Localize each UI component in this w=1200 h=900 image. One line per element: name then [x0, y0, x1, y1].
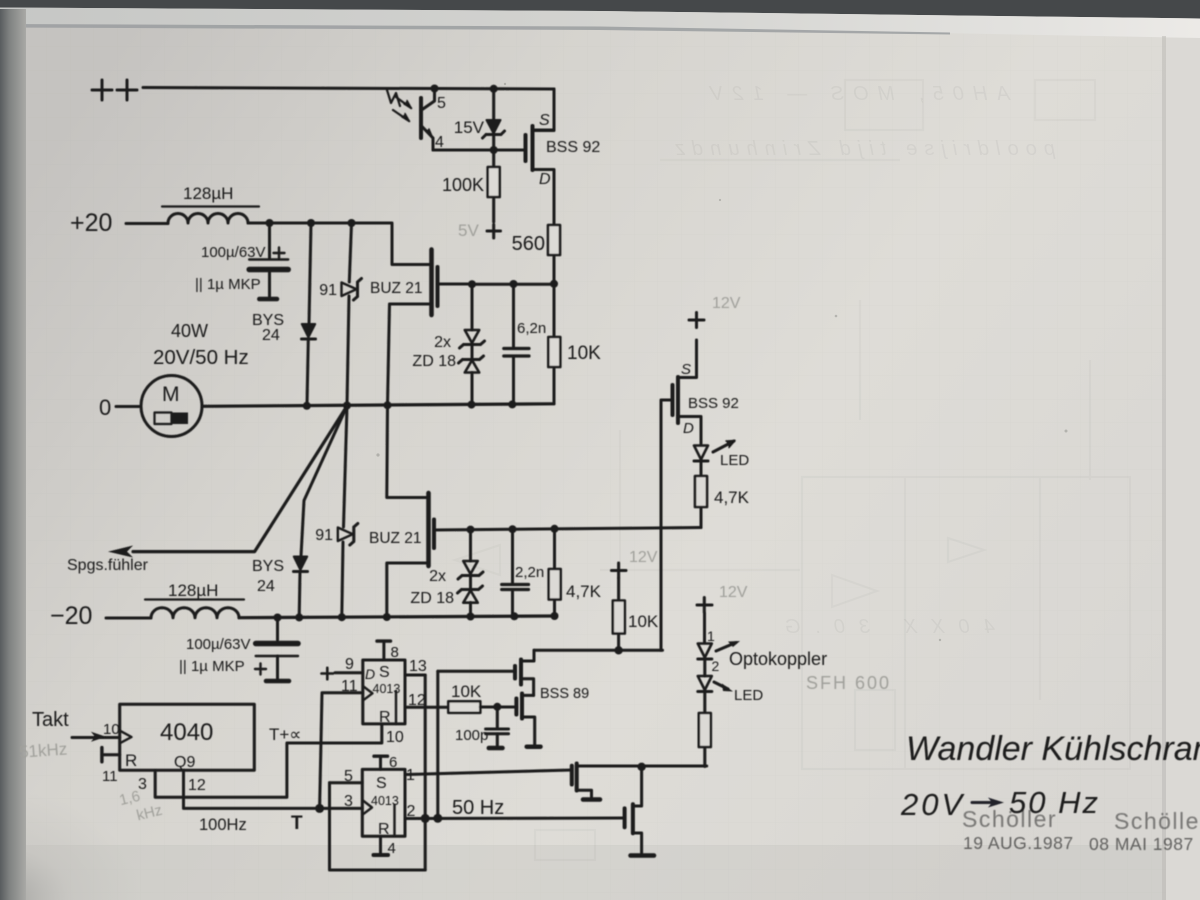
resistor (optokoppler, unlabeled) [699, 713, 711, 767]
ground terminal BSS89 source [527, 744, 541, 749]
stamp dates [963, 833, 1194, 854]
wire 12V to BSS92 source [678, 340, 697, 378]
power +12V terminal (BSS92 mid) [689, 313, 704, 328]
transistor BSS92 Q2 (top) [526, 126, 555, 225]
capacitor 100u/63V (top) [249, 223, 288, 299]
wire phototransistor emitter to BSS92 gate [433, 149, 526, 152]
motor M [116, 376, 202, 437]
capacitor 100u/63V (bottom) [256, 618, 298, 682]
diode zener 15V [483, 89, 505, 150]
svg-text:BUZ 21: BUZ 21 [370, 280, 423, 297]
inductor 128uH (bottom) [151, 608, 239, 618]
svg-text:R: R [379, 709, 391, 726]
svg-text:5V: 5V [458, 221, 479, 240]
svg-text:12V: 12V [719, 584, 748, 601]
label 128uH (bottom) [168, 581, 218, 600]
svg-text:4: 4 [435, 134, 444, 151]
svg-text:128µH: 128µH [168, 581, 218, 600]
svg-text:12V: 12V [712, 295, 741, 312]
wire 10K to BSS89 lower gate [480, 706, 516, 709]
label 1,6 kHz (pencil) [118, 783, 164, 827]
resistor 10K (gate, horizontal) [448, 701, 480, 713]
wire ++ rail [143, 88, 554, 90]
stamp Schoeller Schoeller [962, 806, 1200, 834]
svg-text:BUZ 21: BUZ 21 [369, 530, 422, 547]
node junction dot zener91 top [348, 219, 356, 227]
node junction dot BYS24 top [307, 219, 315, 227]
node junction dot phototransistor collector [431, 85, 439, 93]
svg-text:BSS 92: BSS 92 [546, 139, 600, 156]
capacitor 6.2n [504, 284, 529, 404]
svg-text:5: 5 [437, 95, 446, 112]
capacitor 2.2n [502, 529, 529, 616]
svg-text:Schöller: Schöller [962, 806, 1057, 832]
arrow LED (optokoppler) [714, 682, 728, 689]
node junction dot 10K bottom [614, 646, 622, 654]
ground terminal (upper right FET) [583, 797, 600, 802]
power +12V terminal (10K branch) [612, 563, 627, 578]
svg-text:2x: 2x [429, 568, 446, 585]
svg-text:5: 5 [344, 768, 353, 785]
svg-text:10K: 10K [451, 682, 482, 701]
diode BYS24 (bottom) [294, 557, 308, 618]
wire sense divider diagonal (thick) [133, 406, 347, 552]
svg-text:40XX 30.G: 40XX 30.G [785, 616, 995, 638]
transistor BSS89 (lower of pair) [516, 694, 534, 746]
transistor BSS92 (mid) [661, 377, 701, 650]
ground terminal (lowest FET) [631, 853, 655, 858]
IC 4013 FF2 [362, 769, 405, 836]
diode zener 91 (bottom) [338, 406, 358, 617]
svg-text:T: T [291, 813, 303, 834]
svg-text:9: 9 [345, 656, 354, 673]
wire pin13 feedback vertical [424, 675, 427, 870]
label BYS 24 (bottom) [252, 558, 284, 595]
wire clock riser to FF1 pin11 [320, 693, 363, 809]
svg-text:11: 11 [341, 678, 358, 695]
pin 11 reset terminal (4040) [102, 748, 120, 762]
wire Takt clock arrow [72, 736, 120, 739]
svg-text:D: D [683, 420, 694, 437]
resistor 4.7K (bottom) [549, 529, 561, 616]
svg-text:BSS 89: BSS 89 [540, 686, 589, 702]
node junction dots 50Hz line [421, 814, 443, 823]
svg-text:4013: 4013 [371, 794, 399, 808]
svg-text:91: 91 [315, 527, 333, 544]
logic high + (FF1 pin9) [322, 668, 334, 679]
svg-text:Wandler Kühlschrank: Wandler Kühlschrank [906, 730, 1200, 768]
arrow to Optokoppler label [716, 643, 736, 652]
svg-text:10: 10 [386, 729, 404, 746]
svg-text:128µH: 128µH [183, 184, 233, 203]
svg-text:2: 2 [712, 658, 720, 674]
handwritten 20V -> 50Hz [900, 785, 1100, 822]
wire pin13 stub (FF1) [405, 674, 425, 677]
transistor BSS89 (upper of pair) [515, 650, 534, 695]
svg-text:ZD 18: ZD 18 [410, 590, 454, 607]
svg-text:|| 1µ MKP: || 1µ MKP [195, 276, 261, 293]
pin 4 reset terminal (FF2) [374, 836, 389, 855]
node dots gate line bottom [467, 525, 559, 534]
inductor 128uH (top) [168, 214, 248, 224]
diode pair 2x ZD18 (bottom) [458, 530, 484, 617]
svg-text:|| 1µ MKP: || 1µ MKP [179, 658, 245, 675]
svg-text:20V: 20V [900, 787, 965, 822]
resistor 100K [488, 150, 500, 222]
node junction dot 100p [493, 703, 501, 711]
svg-text:10: 10 [103, 721, 120, 738]
svg-text:S: S [681, 361, 691, 378]
node junction dot 100Hz/clocks [315, 804, 324, 813]
svg-text:6,2n: 6,2n [517, 320, 546, 337]
svg-text:Optokoppler: Optokoppler [729, 649, 827, 669]
svg-text:08 MAI 1987: 08 MAI 1987 [1089, 834, 1194, 854]
svg-text:51kHz: 51kHz [18, 739, 67, 761]
wire 4013 FF1 pin12 line to 10K [405, 706, 448, 709]
resistor 4.7K (mid) [695, 476, 707, 528]
svg-text:100K: 100K [442, 175, 484, 195]
svg-text:Schöller: Schöller [1114, 808, 1200, 834]
svg-text:D: D [539, 171, 551, 188]
svg-text:R: R [125, 751, 137, 770]
svg-text:50 Hz: 50 Hz [452, 797, 504, 819]
svg-text:19 AUG.1987: 19 AUG.1987 [963, 833, 1074, 853]
svg-text:100µ/63V: 100µ/63V [201, 244, 266, 261]
power +12V terminal (optokoppler) [697, 598, 712, 613]
resistor 10K (top) [548, 284, 560, 404]
svg-text:91: 91 [319, 282, 337, 299]
wire -20 rail left [106, 617, 151, 620]
svg-text:4,7K: 4,7K [714, 488, 750, 507]
svg-text:3: 3 [138, 776, 147, 793]
wire BSS92 Q2 source riser [533, 89, 555, 130]
pin 8 set terminal (FF1) [377, 641, 391, 660]
svg-text:15V: 15V [454, 118, 485, 137]
svg-text:40W: 40W [171, 321, 208, 341]
node dots on 0 rail [303, 400, 517, 409]
wire 12V to opto diode [703, 613, 706, 643]
svg-text:560: 560 [512, 233, 545, 255]
label BYS 24 (top) [252, 312, 284, 344]
svg-text:20V/50 Hz: 20V/50 Hz [153, 346, 249, 369]
ground terminal 100p [489, 746, 503, 751]
IC 4040 counter [120, 704, 255, 770]
wire sense diagonal (thin) to BYS24 bottom [301, 406, 347, 556]
diode optocoupler LED 2 [698, 676, 712, 713]
svg-text:24: 24 [262, 327, 280, 344]
svg-text:2x: 2x [434, 334, 451, 351]
faint reverse-side bleed-through [455, 80, 1130, 860]
resistor 560 [548, 225, 560, 284]
transistor output FET (lowest) [625, 767, 642, 854]
resistor 10K (12V branch) [613, 578, 625, 650]
wire +20 rail to BUZ21 drain [248, 223, 432, 265]
svg-text:Q9: Q9 [174, 754, 195, 771]
diode LED (mid) [694, 441, 735, 477]
svg-text:S: S [539, 112, 550, 129]
svg-text:4: 4 [388, 840, 396, 857]
svg-text:M: M [162, 383, 180, 406]
svg-text:13: 13 [409, 658, 427, 675]
wire gate line BUZ21 top [472, 283, 554, 286]
svg-text:BYS: BYS [252, 558, 284, 575]
pin 5 lead (FF2) [330, 781, 363, 784]
diode BYS24 (top) [302, 223, 316, 405]
svg-text:S: S [379, 664, 390, 681]
svg-text:1: 1 [707, 628, 715, 644]
svg-text:BSS 92: BSS 92 [688, 395, 739, 412]
svg-text:8: 8 [391, 644, 399, 661]
svg-text:12: 12 [188, 777, 206, 794]
svg-text:S: S [376, 775, 387, 792]
svg-text:4040: 4040 [160, 719, 213, 746]
node dots gate line top [468, 280, 558, 288]
node junction dot output FET drain [637, 763, 645, 771]
transistor BUZ21 (bottom) [387, 405, 434, 617]
svg-text:100p: 100p [455, 727, 488, 744]
svg-text:24: 24 [257, 578, 275, 595]
wire gate line BUZ21 bottom [434, 528, 701, 531]
svg-text:0: 0 [99, 395, 111, 420]
polarity + (top cap) [274, 248, 285, 259]
node junction dot gate/zener/100K [490, 146, 498, 154]
pin 6 set terminal (FF2) [374, 756, 388, 769]
wire pin1 line (FF2) [405, 770, 572, 775]
wire 4013 FF1 pin13 line to BSS89 gate [438, 670, 515, 673]
transistor BUZ21 (top) [388, 250, 473, 406]
svg-text:10K: 10K [567, 343, 601, 364]
svg-text:D: D [365, 666, 375, 682]
svg-text:12: 12 [408, 692, 426, 709]
svg-text:3: 3 [344, 793, 353, 810]
node junction dot 100u cap [266, 219, 274, 227]
svg-text:10K: 10K [628, 612, 659, 631]
node dots -20 rail [274, 612, 559, 622]
wire -20 rail [239, 616, 555, 618]
svg-text:LED: LED [734, 687, 763, 704]
svg-text:+20: +20 [70, 209, 112, 237]
svg-text:SFH 600: SFH 600 [806, 673, 891, 693]
transistor phototransistor (optocoupler output, pins 5/4) [387, 89, 435, 151]
arrowhead Takt [91, 732, 106, 742]
wire 4040 pin12 100Hz line [184, 770, 320, 808]
svg-text:Spgs.fühler: Spgs.fühler [67, 557, 149, 574]
diode zener 91 (top) [342, 223, 362, 405]
label 128uH (top) [183, 184, 233, 203]
capacitor 100p [486, 707, 509, 747]
wire FF2 pin3 clock line [320, 807, 363, 810]
svg-text:ZD 18: ZD 18 [412, 353, 456, 370]
svg-text:12V: 12V [629, 549, 658, 566]
svg-text:100µ/63V: 100µ/63V [186, 636, 251, 653]
wire BSS89 drain node line [534, 649, 663, 652]
node junction dot 15V zener top [490, 85, 498, 93]
svg-text:LED: LED [720, 452, 749, 469]
wire +20 rail left [126, 222, 168, 225]
svg-text:4,7K: 4,7K [566, 582, 602, 601]
transistor output FET (upper right) [572, 764, 707, 798]
wire 4040 pin3 to T+a line [155, 724, 382, 797]
svg-text:T+∝: T+∝ [269, 725, 301, 744]
wire pin5 loop vertical [330, 783, 426, 870]
node ++ label [92, 80, 137, 100]
pin 9 lead (FF1) [335, 671, 363, 674]
diode pair 2x ZD18 (top) [459, 284, 485, 404]
svg-text:6: 6 [389, 754, 397, 771]
polarity + (bottom cap) [255, 664, 266, 675]
svg-text:2,2n: 2,2n [515, 564, 544, 581]
svg-text:4013: 4013 [373, 682, 401, 696]
svg-text:11: 11 [102, 768, 118, 785]
svg-text:100Hz: 100Hz [199, 816, 247, 834]
wire 0 rail [202, 404, 554, 407]
power +5V terminal [487, 225, 501, 239]
svg-text:−20: −20 [50, 602, 92, 630]
wire pin13 net vertical [436, 671, 439, 818]
arrowhead Spgs.fuehler [108, 546, 133, 558]
svg-text:Takt: Takt [32, 709, 69, 731]
IC 4013 FF1 [363, 660, 405, 724]
wire 50Hz line [405, 817, 625, 821]
diode optocoupler LED 1 [698, 644, 712, 677]
